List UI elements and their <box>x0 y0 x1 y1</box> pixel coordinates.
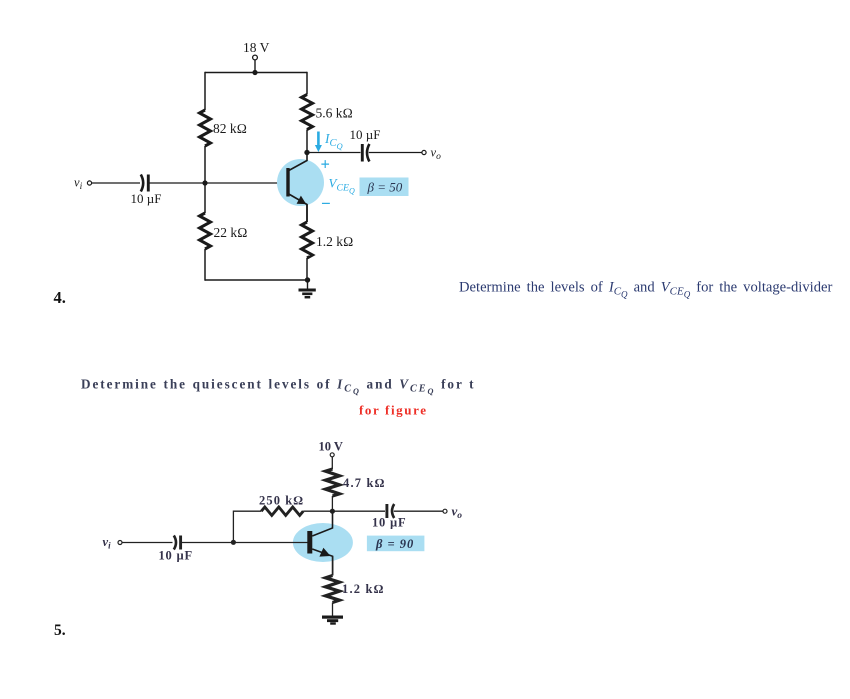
resistor R1 82 kOhm <box>200 110 211 146</box>
wire C1 to base node <box>150 182 206 184</box>
callout beta = 90 <box>367 536 425 552</box>
wire emitter to RE <box>306 205 308 223</box>
svg-text:for figure: for figure <box>359 403 428 418</box>
wire R1 to base node <box>204 146 206 183</box>
svg-text:5.: 5. <box>54 622 66 639</box>
supply terminal 2 <box>330 453 334 457</box>
resistor RB 250 kOhm <box>261 507 303 515</box>
input terminal circle <box>87 181 91 185</box>
supply terminal <box>253 55 258 60</box>
svg-text:β = 90: β = 90 <box>375 537 414 551</box>
svg-text:+: + <box>321 155 330 174</box>
svg-text:82 kΩ: 82 kΩ <box>213 121 247 136</box>
capacitor C4 10 uF <box>387 504 394 518</box>
wire right branch upper <box>306 72 308 95</box>
output terminal circle <box>422 150 426 154</box>
svg-text:18 V: 18 V <box>243 40 270 55</box>
junction top rail <box>252 70 257 75</box>
wire to ground <box>307 280 309 289</box>
wire emitter 2 to RE2 <box>332 556 334 575</box>
svg-text:10 µF: 10 µF <box>131 191 162 206</box>
wire base node to R2 <box>204 183 206 213</box>
transistor Q2 <box>293 511 353 575</box>
resistor RC 5.6 kOhm <box>302 95 313 130</box>
node collector 2 <box>330 509 335 514</box>
svg-text:10 µF: 10 µF <box>350 127 381 142</box>
svg-text:Determine the quiescent levels: Determine the quiescent levels of ICQ an… <box>81 377 476 396</box>
svg-text:4.7 kΩ: 4.7 kΩ <box>343 476 386 490</box>
ground <box>299 290 316 297</box>
svg-text:1.2 kΩ: 1.2 kΩ <box>342 582 385 596</box>
svg-text:vo: vo <box>452 504 463 522</box>
capacitor C1 10 uF <box>141 175 149 192</box>
wire input 2 to C3 <box>122 542 172 544</box>
input terminal circle 2 <box>118 541 122 545</box>
svg-text:ICQ: ICQ <box>324 131 343 151</box>
svg-text:1.2 kΩ: 1.2 kΩ <box>316 234 353 249</box>
wire RC to collector node <box>306 130 308 153</box>
svg-text:5.6 kΩ: 5.6 kΩ <box>316 106 353 121</box>
resistor RC2 4.7 kOhm <box>326 469 340 496</box>
wire R2 to bottom rail <box>204 249 206 281</box>
wire bottom rail <box>205 279 308 281</box>
resistor R2 22 kOhm <box>200 213 211 249</box>
capacitor C3 10 uF <box>174 536 181 550</box>
callout beta = 50 <box>360 178 409 197</box>
capacitor C2 10 uF <box>362 144 369 162</box>
node base 2 <box>231 540 236 545</box>
node collector <box>304 150 309 155</box>
svg-text:−: − <box>321 194 331 213</box>
svg-text:22 kΩ: 22 kΩ <box>214 225 248 240</box>
wire RE to bottom rail <box>306 258 308 280</box>
node base divider junction <box>202 180 207 185</box>
svg-text:10 µF: 10 µF <box>372 516 406 530</box>
arrow I_CQ <box>315 132 322 153</box>
wire C4 to output 2 <box>394 510 443 512</box>
wire collector to C2 <box>307 152 361 154</box>
wire feedback corner to RB <box>233 511 261 542</box>
wire top rail <box>205 72 307 74</box>
svg-text:VCEQ: VCEQ <box>329 176 355 196</box>
wire base node to Q1 base <box>205 182 287 184</box>
transistor Q1 <box>277 153 324 223</box>
svg-text:4.: 4. <box>54 288 66 307</box>
resistor RE 1.2 kOhm <box>302 222 313 258</box>
wire collector 2 to C4 <box>332 510 385 512</box>
svg-text:vo: vo <box>431 146 442 163</box>
svg-text:Determine the levels of ICQ an: Determine the levels of ICQ and VCEQ for… <box>459 280 832 300</box>
wire supply to top rail <box>254 60 256 73</box>
wire C2 to output <box>369 152 422 154</box>
wire RC2 to collector node 2 <box>331 496 333 511</box>
svg-text:vi: vi <box>74 176 83 193</box>
ground 2 <box>322 616 343 625</box>
svg-text:10 µF: 10 µF <box>159 549 193 563</box>
output terminal circle 2 <box>443 509 447 513</box>
svg-text:250 kΩ: 250 kΩ <box>259 494 304 508</box>
wire input to C1 <box>92 182 140 184</box>
svg-text:10 V: 10 V <box>319 440 343 454</box>
wire C3 to base node 2 <box>182 542 234 544</box>
junction bottom rail <box>305 277 310 282</box>
resistor RE2 1.2 kOhm <box>326 576 340 603</box>
svg-text:vi: vi <box>103 535 112 551</box>
wire RE2 to ground 2 <box>332 603 334 616</box>
svg-text:β = 50: β = 50 <box>367 180 403 195</box>
wire RB to collector node 2 <box>303 510 332 512</box>
wire base node 2 to Q2 base <box>233 542 307 544</box>
wire supply to RC2 <box>331 457 333 469</box>
wire left branch upper <box>204 72 206 110</box>
